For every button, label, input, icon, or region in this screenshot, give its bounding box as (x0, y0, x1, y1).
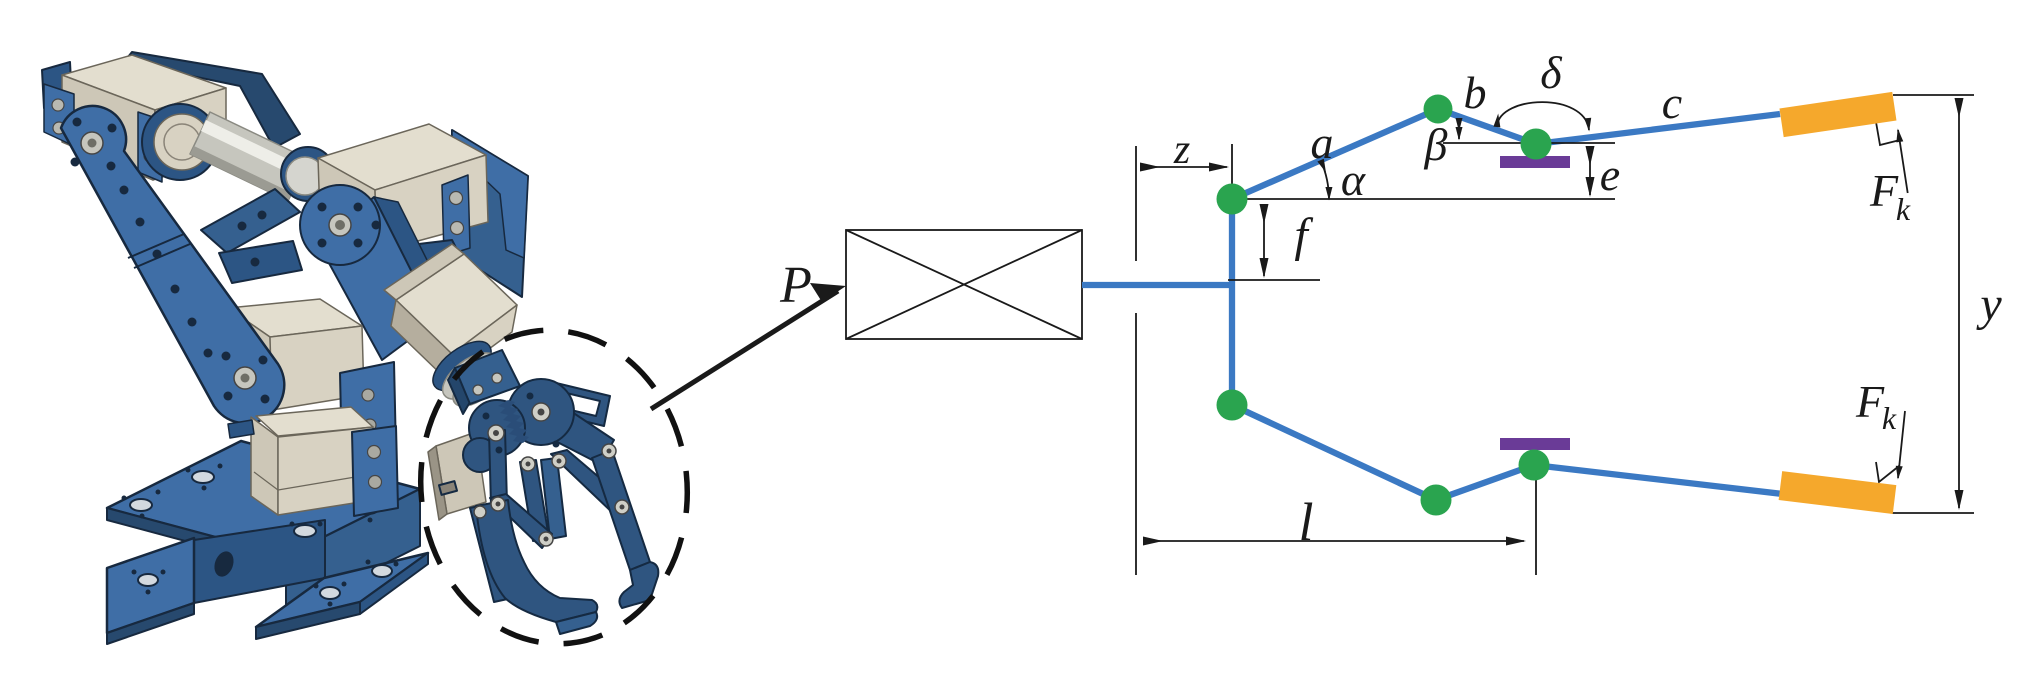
svg-text:α: α (1341, 154, 1366, 205)
svg-text:b: b (1464, 67, 1487, 118)
svg-text:z: z (1173, 127, 1190, 173)
svg-text:F: F (1869, 165, 1899, 216)
svg-text:δ: δ (1540, 47, 1562, 98)
svg-text:y: y (1975, 278, 2002, 331)
svg-text:P: P (779, 257, 812, 314)
svg-text:l: l (1298, 492, 1313, 552)
svg-text:c: c (1662, 77, 1682, 128)
svg-text:a: a (1311, 117, 1334, 168)
svg-text:e: e (1600, 149, 1620, 200)
svg-text:β: β (1424, 119, 1448, 170)
svg-text:f: f (1294, 209, 1313, 262)
svg-text:F: F (1855, 376, 1885, 427)
svg-text:k: k (1882, 400, 1897, 436)
svg-text:k: k (1896, 191, 1911, 227)
